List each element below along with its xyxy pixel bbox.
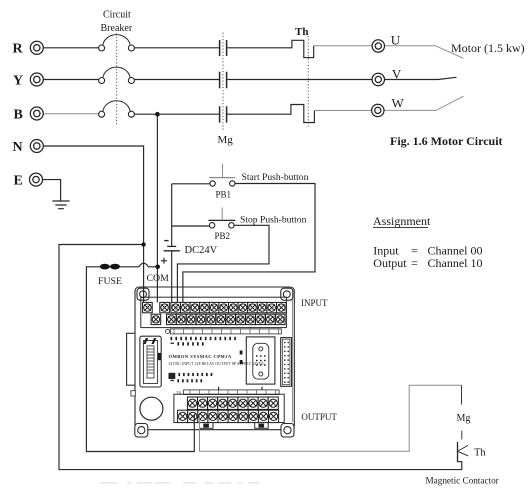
svg-text:Channel 10: Channel 10: [428, 256, 483, 270]
svg-text:Assignment: Assignment: [373, 214, 431, 228]
svg-text:Breaker: Breaker: [101, 23, 133, 34]
svg-text:Magnetic Contactor: Magnetic Contactor: [426, 476, 499, 486]
svg-text:N: N: [13, 140, 23, 155]
svg-text:PB1: PB1: [216, 190, 232, 200]
svg-text:OMRON SYSMAC CPM1A: OMRON SYSMAC CPM1A: [169, 354, 232, 359]
svg-text:=: =: [411, 256, 418, 270]
svg-text:PB2: PB2: [215, 231, 231, 241]
svg-text:W: W: [392, 96, 405, 111]
svg-text:Mg: Mg: [457, 413, 471, 424]
svg-text:COM: COM: [147, 273, 170, 284]
svg-text:Th: Th: [295, 26, 308, 38]
svg-text:R: R: [13, 42, 24, 57]
svg-text:TX: TX: [176, 390, 182, 395]
svg-text:Mg: Mg: [218, 134, 234, 146]
svg-text:B: B: [14, 107, 23, 122]
svg-text:OUTPUT: OUTPUT: [301, 412, 337, 422]
svg-text:Motor (1.5 kw): Motor (1.5 kw): [451, 41, 525, 55]
svg-text:Start Push-button: Start Push-button: [242, 172, 309, 183]
svg-text:DC24V: DC24V: [185, 245, 218, 256]
svg-text:V: V: [392, 66, 402, 81]
svg-text:Circuit: Circuit: [103, 10, 131, 21]
svg-text:24VDC INPUT 12P RELAY OUTPUT 8: 24VDC INPUT 12P RELAY OUTPUT 8P SUPPLY 2…: [169, 362, 265, 366]
svg-text:Y: Y: [13, 73, 23, 88]
svg-text:Fig. 1.6 Motor Circuit: Fig. 1.6 Motor Circuit: [390, 134, 503, 148]
svg-text:INPUT: INPUT: [301, 298, 328, 308]
svg-text:U: U: [391, 33, 401, 48]
svg-text:Th: Th: [474, 448, 486, 459]
svg-text:FUSE: FUSE: [98, 276, 122, 287]
svg-text:E: E: [14, 173, 23, 188]
svg-text:Output: Output: [373, 256, 407, 270]
svg-text:Stop Push-button: Stop Push-button: [240, 215, 307, 226]
